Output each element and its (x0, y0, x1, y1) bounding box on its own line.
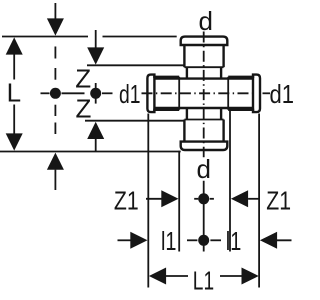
fitting: left socket end line (178, 77, 180, 110)
fitting horizontal centreline (142, 92, 257, 94)
l1 row: node dot (198, 235, 209, 246)
extension line right (L1/l1, x=259) (258, 114, 260, 288)
svg-text:d: d (197, 154, 211, 184)
fitting: arm body bottom line (154, 107, 253, 109)
crosshair dashes of Z node (95, 83, 97, 88)
horizontal centreline left segment (41, 92, 50, 94)
l1 left arrow (118, 239, 133, 241)
svg-text:d1: d1 (119, 79, 141, 109)
extension line bottom (fitting bottom plane) (0, 151, 181, 153)
node dot on left centreline (50, 88, 61, 99)
Z1 right arrow (231, 190, 248, 207)
Z1 left arrow (146, 198, 163, 200)
fitting: right socket cap (253, 75, 260, 113)
svg-text:d: d (199, 6, 213, 36)
extension line centre below fitting (203, 181, 205, 252)
svg-text:Z1: Z1 (114, 185, 139, 215)
svg-text:l1: l1 (226, 226, 242, 256)
svg-text:L: L (7, 78, 21, 108)
svg-text:d1: d1 (270, 79, 295, 109)
centerline dashes x=55 (54, 47, 56, 59)
L1 dimension line (149, 268, 166, 285)
node dot at Z dimension line (90, 88, 101, 99)
svg-text:l1: l1 (161, 226, 177, 256)
fitting: left socket cap (147, 75, 154, 113)
fitting: bottom neck walls (186, 108, 188, 120)
svg-text:Z: Z (76, 94, 92, 124)
fitting: bottom socket walls (183, 120, 185, 142)
fitting: top socket walls (183, 45, 185, 67)
svg-text:L1: L1 (193, 266, 214, 296)
Z lower dimension arrow (87, 122, 104, 139)
L dimension lower arrow (13, 105, 15, 135)
svg-text:Z: Z (75, 64, 91, 94)
fitting: right socket end line (227, 77, 229, 110)
fitting: right socket walls (228, 76, 254, 78)
extension line left (L1/l1, x=148) (147, 114, 149, 288)
Z1 row: node dot (198, 193, 209, 204)
extension line upper Z target (87, 64, 184, 66)
fitting: bottom socket cap (181, 142, 228, 150)
fitting: top socket end line (184, 66, 223, 68)
fitting: top neck walls (186, 67, 188, 78)
fitting: arm body top line (154, 77, 253, 79)
extension line bottom-socket right bead (229, 110, 231, 252)
fitting: left socket walls (153, 76, 179, 78)
l1 right arrow (260, 232, 277, 249)
extension line top (fitting top plane) (2, 36, 88, 38)
L dimension upper arrow (6, 37, 23, 54)
arrow down at x=55 to top plane (47, 18, 64, 35)
extension line lower Z target (85, 120, 184, 122)
centerline vertical left (x=55) top dash + arrow stem (54, 3, 56, 20)
svg-text:Z1: Z1 (266, 185, 291, 215)
Z upper dimension arrow (95, 30, 97, 49)
fitting: bottom socket end line (184, 119, 223, 121)
arrow up at x=55 to bottom plane (47, 153, 64, 170)
extension line bottom-socket left bead (178, 151, 180, 252)
fitting: top socket cap (181, 37, 228, 45)
fitting vertical centreline (203, 32, 205, 158)
